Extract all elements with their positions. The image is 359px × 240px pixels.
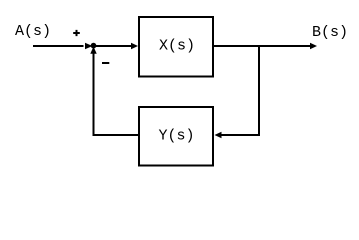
- minus sign at summing junction: [102, 62, 109, 64]
- svg-text:Y(s): Y(s): [158, 128, 194, 145]
- svg-text:A(s): A(s): [15, 23, 51, 40]
- arrowhead into Y(s) block: [215, 132, 222, 138]
- arrowhead into summing junction: [85, 43, 93, 49]
- arrowhead into X(s) block: [131, 43, 138, 49]
- wire input A(s) to summing junction: [33, 45, 84, 47]
- summing junction dot: [91, 43, 97, 49]
- arrowhead up into summing junction: [90, 47, 96, 54]
- wire Y(s) output to left: [94, 134, 139, 136]
- svg-text:X(s): X(s): [159, 37, 195, 54]
- block X(s): [139, 17, 213, 77]
- wire branch to Y(s) block: [222, 134, 261, 136]
- branch takeoff wire down from output node: [258, 45, 260, 135]
- block Y(s): [139, 107, 213, 166]
- feedback wire up to summing junction: [93, 53, 95, 136]
- wire summing junction to X(s) block: [94, 45, 132, 47]
- svg-text:B(s): B(s): [312, 24, 348, 41]
- wire X(s) output to B(s): [214, 45, 310, 47]
- arrowhead at B(s) output: [310, 43, 317, 49]
- plus sign at summing junction: [73, 30, 80, 36]
